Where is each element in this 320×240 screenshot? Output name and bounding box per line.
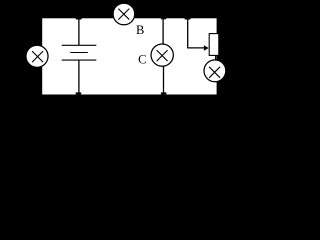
wiper arrowhead xyxy=(204,45,209,50)
wire: wiper horizontal xyxy=(187,47,204,49)
wire: lamp C branch top xyxy=(162,18,164,44)
lamp D xyxy=(204,60,226,82)
node: wiper top junction xyxy=(185,16,191,19)
lamp A xyxy=(26,45,48,67)
circuit interior (white fill of main loop) xyxy=(42,18,216,94)
battery plates xyxy=(62,45,97,60)
svg-text:B: B xyxy=(136,23,144,37)
lamp C xyxy=(151,44,173,66)
rheostat R box xyxy=(209,34,219,56)
svg-text:C: C xyxy=(138,53,146,67)
lamp B xyxy=(113,3,135,25)
wire: rheostat box bottom to lamp D xyxy=(215,55,217,60)
wire: lamp C branch bottom xyxy=(163,66,165,94)
wire: battery branch top xyxy=(78,18,80,45)
node: battery top junction xyxy=(76,16,82,19)
node: lamp C bottom junction xyxy=(161,92,167,94)
wire: rheostat wiper branch vertical xyxy=(187,18,189,48)
wire: battery branch bottom xyxy=(78,60,80,94)
node: battery bottom junction xyxy=(76,92,82,94)
node: lamp C top junction xyxy=(161,16,166,19)
